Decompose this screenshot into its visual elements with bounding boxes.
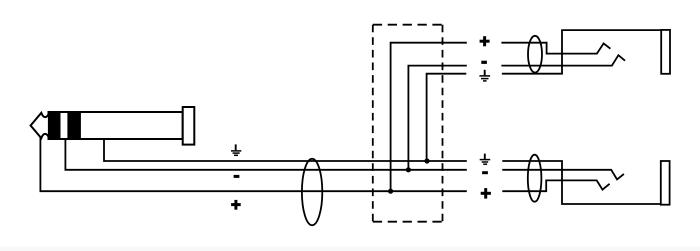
plus label top right [480,36,490,46]
minus label top right [481,61,487,64]
footer strip [0,247,700,251]
cable ellipse top right [528,36,542,73]
top socket J1 end bar [661,30,670,74]
cable ellipse bottom right [528,155,542,202]
plug P1 barrel (sleeve) [49,112,183,139]
wire: vertical ground riser [427,74,467,161]
plug P1 tip [31,113,49,138]
wire: sleeve to ground line1 [104,139,467,161]
plus label bottom right [481,188,491,199]
junction dot on + line [388,189,393,194]
junction dot on ground line [424,158,429,163]
wire: ground to top socket body [502,73,563,75]
junction dot on - line [406,167,411,172]
dashed box horizontal edges [373,25,443,222]
bottom socket J2 body [562,161,670,204]
wire: ring to - line2 [65,139,466,170]
wire: ground to bottom socket body [502,160,563,162]
ground symbol top right [479,70,490,81]
minus label left [234,175,240,178]
wire: tip to + line3 [40,137,466,191]
plug P1 insulator band 1 [49,111,61,140]
wire: + to bottom socket tip contact (steps up) [502,180,609,191]
plug P1 cap [183,107,195,145]
dashed box vertical edges [373,25,443,222]
ground symbol left [231,144,241,155]
plug P1 insulator band 2 [67,111,81,140]
wire: vertical - riser [408,66,466,170]
cable ellipse left [302,159,322,225]
wire: + to top socket tip contact (steps down) [501,43,610,54]
top socket J1 body [562,30,661,74]
wire: vertical + riser [391,43,467,192]
minus label bottom right [482,171,488,174]
plus label left [231,200,241,210]
wire: - to top socket ring contact [501,55,625,65]
ground symbol bottom right [480,154,491,165]
wire: - to bottom socket ring contact [502,170,624,180]
bottom socket J2 end bar [661,161,670,205]
